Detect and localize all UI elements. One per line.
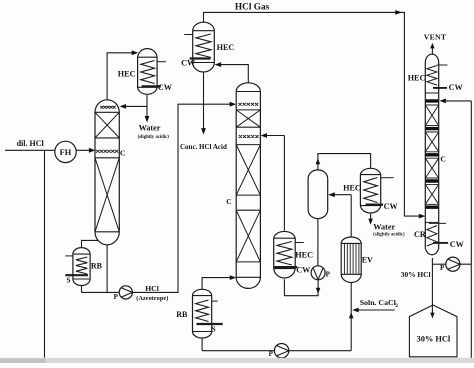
svg-text:S: S: [212, 326, 216, 334]
evaporator EV shell: [341, 237, 361, 282]
svg-text:P: P: [326, 270, 331, 278]
wire P3 discharge up right side to C3 top: [460, 101, 471, 264]
RB2 condensate thick line: [197, 323, 223, 325]
column C1 divider lines: [95, 112, 119, 232]
wire HCl gas line from HEC2 to column C3: [204, 12, 424, 216]
wire FH to column C1 with arrow: [76, 149, 92, 151]
heat exchanger HEC4 shell: [274, 231, 296, 278]
column C2 packing X section 2: [236, 145, 260, 196]
wire knockout bottoms to pump P2: [317, 219, 319, 266]
wire P2 discharge to HEC4 bottom: [284, 279, 318, 296]
wire right edge line down: [470, 264, 472, 363]
feed preheater FH: [55, 141, 76, 162]
svg-text:CW: CW: [181, 58, 196, 67]
HEC2 CW outlet thick line left: [190, 57, 211, 59]
wire C1 bottoms down: [106, 245, 108, 293]
HEC1 CW inlet stub: [157, 61, 166, 63]
wire RB1 vapor return to C1 bottom: [82, 240, 99, 247]
svg-text:S: S: [67, 277, 71, 285]
svg-text:VENT: VENT: [424, 33, 447, 42]
pump P1: [119, 286, 132, 299]
wire reflux into C1 top with arrow: [121, 105, 147, 107]
svg-text:HEC: HEC: [118, 69, 136, 78]
wire EV bottoms feed line: [350, 283, 352, 351]
column C1 packing X section 2: [95, 158, 119, 232]
wire RB2 bottoms down: [201, 338, 203, 351]
svg-text:30% HCl: 30% HCl: [401, 270, 431, 279]
svg-text:HCl Gas: HCl Gas: [235, 3, 270, 13]
svg-text:C: C: [440, 155, 445, 164]
wire RB2 vapor return to C2 bottom: [202, 278, 234, 290]
wire knockout overhead to HEC5: [318, 154, 371, 170]
HEC5 CW outlet thick line: [366, 204, 384, 206]
CR CW outlet stub: [433, 242, 448, 244]
wire bottoms header to pump P1: [82, 291, 120, 293]
svg-text:CW: CW: [384, 202, 399, 211]
HEC5 CW inlet stub: [381, 177, 394, 179]
wire RB1 bottoms down: [81, 286, 83, 293]
column C3 HEC coil: [427, 66, 437, 86]
wire vent arrow up: [431, 46, 433, 54]
column C1 packing X section 1: [95, 112, 119, 138]
svg-text:Water: Water: [139, 123, 161, 132]
RB1 condensate thick line: [65, 274, 88, 276]
column C3 divider above CR: [425, 221, 438, 223]
column C1 top demister x-row: [100, 106, 115, 109]
wire HEC2 bottom outlet Conc HCl acid arrow: [203, 72, 205, 132]
svg-text:dil. HCl: dil. HCl: [17, 139, 45, 148]
svg-text:HEC: HEC: [295, 250, 313, 259]
wire C3 bottoms outlet: [431, 258, 433, 316]
pump P3: [446, 257, 460, 271]
svg-text:HEC: HEC: [217, 43, 235, 52]
column C2 packing X section 3: [236, 210, 260, 262]
HEC2 CW inlet stub left: [184, 34, 193, 36]
pump P2: [311, 266, 325, 280]
svg-text:P: P: [114, 293, 119, 301]
svg-text:HEC: HEC: [408, 74, 426, 83]
svg-text:CW: CW: [450, 240, 465, 249]
svg-text:FH: FH: [60, 148, 72, 157]
svg-text:Conc. HCl Acid: Conc. HCl Acid: [180, 143, 227, 151]
wire P1 discharge to column C2 top feed: [132, 104, 234, 292]
EV tube bundle: [344, 243, 359, 274]
reboiler RB2 shell: [193, 289, 212, 338]
wire branch to pump P3: [432, 263, 445, 265]
column C1 feed x-row: [96, 150, 118, 153]
svg-text:P: P: [269, 350, 274, 358]
tank 30% HCl storage: [409, 305, 457, 357]
svg-text:(slightly acidic): (slightly acidic): [138, 135, 170, 140]
HEC5 coil: [364, 178, 378, 203]
C3 HEC CW outlet stub: [433, 87, 447, 89]
HEC2 coil: [196, 34, 211, 58]
C3 HEC CW inlet stub: [437, 64, 448, 66]
RB2 coil: [196, 300, 209, 322]
svg-text:30% HCl: 30% HCl: [417, 335, 451, 344]
svg-text:P: P: [440, 264, 445, 272]
wire recycle feed from right into C3: [442, 100, 472, 102]
cooler CR coil: [427, 226, 437, 247]
reboiler RB1 shell: [73, 248, 90, 286]
RB2 steam inlet stub: [212, 300, 218, 302]
wire HEC1 outlet downcomer: [146, 95, 148, 118]
svg-text:CW: CW: [158, 83, 173, 92]
svg-text:EV: EV: [362, 255, 373, 264]
svg-text:(Azeotrope): (Azeotrope): [136, 295, 168, 302]
column C2 packing X section 1: [236, 110, 260, 127]
wire dil. HCl branch down to page edge: [44, 150, 46, 357]
column C2 shell: [236, 83, 260, 289]
svg-text:(slightly acidic): (slightly acidic): [373, 232, 405, 237]
pump P bottom: [274, 344, 288, 358]
column C3 distributor bars: [426, 101, 439, 207]
svg-text:2: 2: [395, 303, 398, 309]
HEC1 CW outlet thick line: [142, 85, 161, 87]
svg-text:Soln. CaCl: Soln. CaCl: [360, 298, 397, 307]
column C3 divider below HEC: [425, 92, 438, 94]
RB1 coil: [76, 257, 87, 274]
wire EV overhead into knockout with arrow: [330, 194, 352, 196]
heat exchanger HEC1 shell: [138, 49, 158, 95]
HEC4 CW outlet thick line: [274, 266, 297, 268]
wire HEC4 vapor to C2: [283, 136, 285, 231]
svg-text:CW: CW: [296, 266, 311, 275]
wire dil. HCl feed line: [5, 149, 55, 151]
heat exchanger HEC5 shell: [360, 168, 380, 213]
decorative page edge band: [0, 358, 474, 363]
wire Soln CaCl2 inlet: [354, 309, 395, 311]
CR inlet stub: [429, 222, 446, 224]
svg-text:HEC: HEC: [343, 183, 361, 192]
HEC1 coil: [141, 61, 155, 84]
svg-text:RB: RB: [176, 310, 188, 319]
svg-text:C: C: [120, 148, 125, 157]
HEC4 coil: [277, 242, 292, 266]
svg-text:CW: CW: [449, 83, 464, 92]
column C3 shell: [425, 54, 438, 255]
svg-text:CR: CR: [414, 230, 426, 239]
heat exchanger HEC2 shell: [193, 22, 215, 72]
wire bottom pump discharge to EV: [289, 350, 351, 352]
column C3 packing X sections: [425, 105, 438, 204]
wire water product arrow: [145, 116, 150, 123]
svg-text:RB: RB: [91, 261, 103, 270]
wire C1 overhead vapor to HEC1: [107, 53, 136, 100]
column C2 mid x-row: [239, 135, 259, 138]
column C2 top x-row: [238, 103, 258, 106]
RB1 steam inlet stub: [65, 255, 73, 257]
svg-text:HCl: HCl: [145, 284, 160, 293]
wire C2 overhead vapor to HEC2: [217, 65, 249, 83]
column C1 shell: [95, 100, 119, 245]
HEC4 CW inlet stub: [295, 242, 304, 244]
knockout drum: [308, 170, 328, 219]
svg-text:C: C: [226, 197, 231, 206]
wire bottoms header to pump: [202, 350, 274, 352]
svg-text:Water: Water: [373, 223, 395, 232]
column C2 divider lines: [236, 92, 260, 278]
wire side feed from HEC4 into C2 with arrow: [262, 135, 284, 137]
wire HEC5 outlet water arrow: [370, 214, 372, 222]
